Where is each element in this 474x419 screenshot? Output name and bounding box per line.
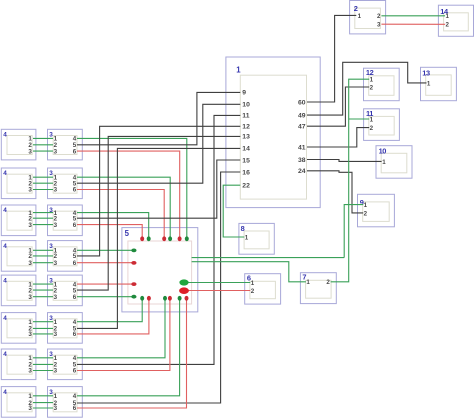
wire box5 right big pad green -> box6 pin1	[184, 282, 250, 284]
pad box5 left 3 (red)	[131, 282, 136, 286]
svg-text:8: 8	[241, 224, 245, 233]
wire box1 pin49 -> box13 pin1 (black)	[307, 62, 427, 115]
connector J2 (box 2)	[350, 1, 386, 34]
wire pair5 pin4 -> box5 left pad3 (red)	[77, 283, 134, 285]
svg-text:3: 3	[28, 260, 32, 267]
pad box5 top 2 (green)	[147, 236, 151, 241]
pad box5 top 3 (red)	[162, 236, 166, 241]
connector J6 (box 6)	[245, 274, 281, 304]
connector J3-3 (right box 3, pair 3)	[48, 205, 83, 236]
wire pair8 link 3-3	[33, 407, 53, 409]
svg-text:24: 24	[298, 168, 306, 175]
svg-text:3: 3	[54, 331, 58, 338]
svg-text:6: 6	[73, 148, 77, 155]
connector J10 (box 10)	[376, 146, 412, 179]
svg-text:2: 2	[364, 210, 368, 217]
wire pair3 link 3-3	[33, 224, 53, 226]
wire pair6 link 2-2	[33, 327, 53, 329]
svg-text:6: 6	[73, 260, 77, 267]
wire pair1 link 1-1	[33, 137, 53, 139]
wire pair6 pin4 -> box5 bottom pad1 (green)	[77, 298, 142, 321]
svg-text:1: 1	[427, 80, 431, 87]
svg-text:3: 3	[28, 368, 32, 375]
connector J3-5 (right box 3, pair 5)	[48, 275, 83, 306]
wire pair8 pin6 -> box5 bottom pad6 (red)	[77, 298, 187, 408]
connector J3-2 (right box 3, pair 2)	[48, 168, 83, 199]
wire pair3 pin6 -> box5 top pad1 (red)	[77, 225, 142, 239]
connector J12 (box 12)	[364, 68, 400, 101]
wire pair4 pin5 -> box1 pin12 (black)	[77, 126, 240, 256]
svg-text:3: 3	[54, 148, 58, 155]
wire box2 pin2 -> box14 pin1 (green)	[381, 15, 445, 17]
pad box5 top 6 (green)	[185, 236, 189, 241]
connector J4-7 (left box 4, pair 7)	[1, 349, 36, 380]
pad box5 bottom 4 (red)	[168, 296, 172, 301]
pad box5 left 2 (red)	[131, 261, 136, 265]
wire green net: box12 pin1 down to box7 pin2	[331, 79, 370, 282]
svg-text:60: 60	[298, 99, 306, 106]
svg-text:4: 4	[3, 132, 7, 139]
svg-text:4: 4	[3, 277, 7, 284]
connector J4-6 (left box 4, pair 6)	[1, 313, 36, 344]
connector J3-7 (right box 3, pair 7)	[48, 349, 83, 380]
wire pair4 link 3-3	[33, 262, 53, 264]
pad box5 top 1 (red)	[140, 236, 144, 241]
wire pair3 pin4 -> box5 top pad2 (green)	[77, 213, 149, 239]
wire pair1 pin4 -> box5 top pad6 (green)	[77, 138, 187, 238]
svg-text:1: 1	[358, 13, 362, 20]
pad box5 left 4 (green)	[131, 295, 136, 299]
wire pair7 link 1-1	[33, 357, 53, 359]
svg-text:3: 3	[54, 368, 58, 375]
svg-text:9: 9	[242, 90, 246, 97]
wire pair5 pin6 -> box5 left pad4 (green)	[77, 296, 134, 298]
svg-text:3: 3	[28, 331, 32, 338]
pad box5 top 5 (red)	[178, 236, 182, 241]
svg-text:1: 1	[364, 202, 368, 209]
IC U1 (box 1)	[226, 57, 320, 208]
svg-text:6: 6	[73, 331, 77, 338]
connector J8 (box 8)	[239, 223, 274, 254]
wire box1 pin47 -> box12 pin2 (black)	[307, 87, 369, 126]
wire pair6 pin6 -> box5 bottom pad2 (red)	[77, 298, 149, 334]
wire pair6 link 1-1	[33, 321, 53, 323]
svg-text:2: 2	[251, 288, 255, 295]
svg-text:4: 4	[3, 351, 7, 358]
pad box5 bottom 2 (red)	[147, 296, 151, 301]
svg-text:2: 2	[377, 13, 381, 20]
svg-text:6: 6	[73, 222, 77, 229]
wire box1 pin38 -> box10 pin1 (black)	[307, 160, 382, 162]
svg-text:2: 2	[326, 279, 330, 286]
connector J3-6 (right box 3, pair 6)	[48, 313, 83, 344]
connector J3-1 (right box 3, pair 1)	[48, 129, 83, 160]
svg-text:1: 1	[245, 234, 249, 241]
svg-text:6: 6	[73, 187, 77, 194]
wire pair1 pin6 -> box5 top pad5 (red)	[77, 151, 180, 239]
wire pair2 link 3-3	[33, 189, 53, 191]
wire pair7 pin4 -> box5 bottom pad3 (green)	[77, 298, 165, 358]
svg-text:38: 38	[298, 157, 306, 164]
wire box2 pin3 -> box14 pin2 (red)	[381, 23, 445, 25]
wire box1 pin22 -> box8 pin1 (green)	[223, 185, 244, 237]
pad box5 top 4 (green)	[168, 236, 172, 241]
svg-text:3: 3	[28, 294, 32, 301]
svg-text:47: 47	[298, 124, 306, 131]
connector J4-5 (left box 4, pair 5)	[1, 275, 36, 306]
pad box5 bottom 1 (green)	[140, 296, 144, 301]
wire pair4 pin6 -> box5 left pad2 (red)	[77, 262, 134, 264]
svg-text:6: 6	[73, 405, 77, 412]
pad box5 bottom 6 (red)	[185, 296, 189, 301]
wire pair2 pin5 -> box1 pin10 (black)	[77, 104, 240, 183]
svg-text:1: 1	[382, 159, 386, 166]
wire pair6 link 3-3	[33, 333, 53, 335]
wire pair5 link 1-1	[33, 283, 53, 285]
wire green net: branch to box11 pin1	[349, 118, 370, 120]
svg-text:11: 11	[242, 113, 249, 120]
svg-text:13: 13	[242, 134, 250, 141]
svg-text:1: 1	[446, 13, 450, 20]
svg-text:5: 5	[125, 229, 130, 238]
wire green net: long horizontal y=257.6 to box5 right edge	[192, 257, 345, 259]
svg-text:4: 4	[3, 207, 7, 214]
svg-text:1: 1	[251, 280, 255, 287]
connector J4-2 (left box 4, pair 2)	[1, 168, 36, 199]
svg-text:13: 13	[422, 69, 430, 78]
svg-text:10: 10	[242, 102, 250, 109]
svg-text:3: 3	[54, 222, 58, 229]
svg-text:10: 10	[379, 147, 387, 156]
svg-text:1: 1	[306, 279, 310, 286]
svg-text:4: 4	[3, 389, 7, 396]
connector J4-8 (left box 4, pair 8)	[1, 387, 36, 418]
wire pair1 pin5 -> box1 pin9 (black)	[77, 92, 240, 144]
wire pair5 pin5 -> box1 pin13 (black)	[77, 136, 240, 290]
connector J4-4 (left box 4, pair 4)	[1, 241, 36, 272]
svg-text:3: 3	[377, 22, 381, 29]
wire pair3 link 2-2	[33, 217, 53, 219]
wire pair4 link 1-1	[33, 249, 53, 251]
svg-text:3: 3	[54, 260, 58, 267]
wire pair4 link 2-2	[33, 255, 53, 257]
svg-text:15: 15	[242, 157, 250, 164]
wire box1 pin41 -> box11 pin2 (black)	[307, 128, 369, 147]
wire pair2 link 1-1	[33, 176, 53, 178]
wire pair7 pin6 -> box5 bottom pad4 (red)	[77, 298, 170, 370]
wire pair2 pin4 -> box5 top pad4 (green)	[77, 177, 170, 239]
wire green net: box9 pin1 to long horizontal y=257.6	[344, 205, 363, 258]
svg-text:2: 2	[446, 22, 450, 29]
connector J7 (box 7)	[300, 273, 336, 304]
wire pair2 pin6 -> box5 top pad3 (red)	[77, 190, 164, 239]
wire box1 pin24 -> box9 pin2 (black)	[307, 171, 363, 213]
connector J11 (box 11)	[364, 109, 400, 141]
wire pair7 link 3-3	[33, 370, 53, 372]
svg-text:41: 41	[298, 144, 306, 151]
connector J14 (box 14)	[438, 5, 473, 36]
connector J4-1 (left box 4, pair 1)	[1, 129, 36, 160]
wire pair8 link 2-2	[33, 402, 53, 404]
svg-text:12: 12	[242, 124, 250, 131]
wire pair4 pin4 -> box5 left pad1 (green)	[77, 249, 134, 251]
wire box5 right big pad red -> box6 pin2	[184, 290, 250, 292]
svg-text:49: 49	[298, 112, 306, 119]
wire box2 pin1 -> box1 pin60 (black)	[307, 15, 356, 102]
wire pair3 pin5 -> box1 pin15 (black)	[77, 160, 240, 218]
wire green net2: box5 right edge to box7 pin1	[192, 262, 306, 282]
svg-text:2: 2	[370, 84, 374, 91]
pad box5 bottom 5 (green)	[178, 296, 182, 301]
svg-text:2: 2	[370, 125, 374, 132]
wire pair1 link 2-2	[33, 144, 53, 146]
svg-text:3: 3	[28, 148, 32, 155]
module U5 (box 5)	[122, 228, 198, 312]
pad box5 left 1 (green)	[131, 249, 136, 253]
wire pair8 link 1-1	[33, 395, 53, 397]
svg-text:22: 22	[242, 183, 250, 190]
wire pair8 pin5 -> box1 pin16 (black)	[77, 172, 240, 403]
pad box5 right big red	[179, 287, 189, 294]
pad box5 bottom 3 (green)	[163, 296, 167, 301]
svg-text:4: 4	[3, 170, 7, 177]
connector J3-4 (right box 3, pair 4)	[48, 241, 83, 272]
wire pair3 link 1-1	[33, 212, 53, 214]
svg-text:2: 2	[354, 4, 358, 13]
svg-text:6: 6	[73, 294, 77, 301]
svg-text:3: 3	[54, 405, 58, 412]
svg-text:16: 16	[242, 169, 250, 176]
wire pair2 link 2-2	[33, 182, 53, 184]
wire pair7 pin5 -> box1 pin11 (black)	[77, 115, 240, 364]
svg-text:3: 3	[28, 222, 32, 229]
connector J9 (box 9)	[358, 194, 395, 227]
wire pair8 pin4 -> box5 bottom pad5 (green)	[77, 298, 180, 396]
wire pair1 link 3-3	[33, 150, 53, 152]
svg-text:1: 1	[370, 116, 374, 123]
svg-text:1: 1	[236, 66, 241, 75]
wire pair5 link 2-2	[33, 289, 53, 291]
svg-text:4: 4	[3, 315, 7, 322]
svg-text:4: 4	[3, 243, 7, 250]
pad box5 right big green	[179, 279, 188, 285]
wire pair7 link 2-2	[33, 363, 53, 365]
svg-text:3: 3	[28, 405, 32, 412]
connector J3-8 (right box 3, pair 8)	[48, 387, 83, 418]
svg-text:14: 14	[242, 146, 250, 153]
svg-text:3: 3	[54, 294, 58, 301]
svg-text:6: 6	[73, 368, 77, 375]
connector J4-3 (left box 4, pair 3)	[1, 205, 36, 236]
svg-text:3: 3	[28, 187, 32, 194]
connector J13 (box 13)	[421, 67, 457, 100]
svg-text:3: 3	[54, 187, 58, 194]
wire pair5 link 3-3	[33, 296, 53, 298]
wire pair6 pin5 -> box1 pin14 (black)	[77, 148, 240, 328]
svg-text:1: 1	[370, 77, 374, 84]
